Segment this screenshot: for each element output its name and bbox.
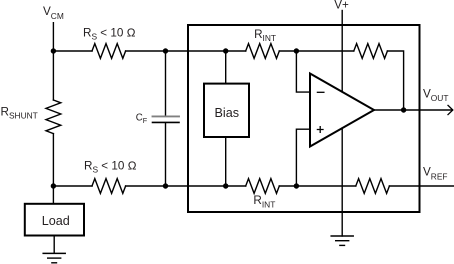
bias block — [204, 84, 249, 137]
wire RS2 to node E — [126, 185, 166, 187]
resistor RSHUNT — [46, 100, 61, 134]
IC boundary box U1 — [188, 25, 420, 212]
value label RINT1 — [254, 28, 276, 43]
wire Load to ground — [53, 236, 55, 254]
wire node D to RS2 — [53, 185, 92, 187]
node C2 (RINT2 left junction, bias bottom) — [223, 183, 228, 188]
resistor RINT1 (top internal) — [246, 44, 280, 59]
svg-text:RS < 10 Ω: RS < 10 Ω — [83, 27, 136, 42]
wire RINT1 to node G — [279, 50, 296, 52]
wire node E into IC to node F — [166, 185, 226, 187]
value label CF — [136, 112, 148, 125]
wire V+ supply to op-amp — [341, 11, 343, 92]
label Load — [42, 214, 70, 228]
wire node C to RINT1 — [226, 50, 246, 52]
wire VCM down to node A — [52, 23, 54, 51]
wire op-amp output — [374, 109, 452, 111]
wire RSHUNT to node D — [52, 134, 54, 186]
wire node F to RREF — [296, 185, 355, 187]
wire RF to output node — [387, 51, 403, 110]
wire node B into IC to node C — [166, 50, 226, 52]
wire CF top lead — [165, 51, 167, 116]
capacitor CF — [153, 116, 180, 122]
wire RINT2 to node F — [279, 185, 296, 187]
resistor RREF (vref internal) — [356, 179, 390, 194]
wire non-inverting input to node F — [296, 129, 310, 186]
wire CF bottom lead — [165, 123, 167, 186]
resistor RS2 (Rs < 10 ohm, bottom) — [92, 179, 126, 194]
wire node G to feedback resistor — [296, 50, 353, 52]
node H (output / feedback junction) — [401, 107, 406, 112]
ground (load) — [43, 253, 65, 262]
node E (CF bottom junction) — [163, 183, 168, 188]
net label VREF — [423, 166, 448, 182]
wire node A to RS1 — [53, 50, 92, 52]
op-amp U1A triangle — [310, 74, 374, 147]
node F (non-inverting input node) — [294, 183, 299, 188]
node A (VCM / RSHUNT / RS1 junction) — [51, 48, 56, 53]
node C (RINT1 left junction, bias top) — [223, 48, 228, 53]
svg-text:RS < 10 Ω: RS < 10 Ω — [84, 160, 137, 175]
ground (IC) — [331, 236, 353, 245]
net label V+ — [334, 0, 349, 11]
wire bias top lead — [225, 51, 227, 84]
resistor RINT2 (bottom internal) — [246, 179, 280, 194]
net label VOUT — [423, 88, 448, 103]
resistor RS1 (Rs < 10 ohm, top) — [92, 44, 126, 59]
wire RS1 to node B — [126, 50, 166, 52]
value label RS2: Rs < 10 ohm — [84, 160, 137, 175]
node G (inverting input node) — [294, 48, 299, 53]
op-amp plus symbol — [317, 127, 323, 133]
wire op-amp ground pin down — [341, 128, 343, 236]
wire node F to RINT2 (via node C2) — [226, 185, 246, 187]
svg-text:Load: Load — [42, 214, 70, 228]
value label RS1: Rs < 10 ohm — [83, 27, 136, 42]
value label RSHUNT — [1, 106, 38, 121]
wire node G to op-amp inverting input — [296, 51, 310, 92]
net label VCM — [43, 5, 64, 21]
resistor RF (feedback) — [354, 44, 388, 59]
svg-text:Bias: Bias — [215, 106, 240, 120]
wire node D to Load — [52, 186, 54, 204]
value label RINT2 — [253, 194, 275, 209]
svg-text:V+: V+ — [334, 0, 349, 11]
node B (CF top junction) — [163, 48, 168, 53]
node D (RSHUNT / Load / RS2 junction) — [51, 183, 56, 188]
wire RREF to VREF terminal — [389, 185, 454, 187]
op-amp minus symbol — [317, 91, 324, 93]
wire node A to RSHUNT — [52, 51, 54, 100]
wire bias bottom lead — [225, 137, 227, 186]
arrowhead VOUT — [448, 105, 453, 114]
label Bias — [215, 106, 240, 120]
load box — [25, 204, 84, 236]
